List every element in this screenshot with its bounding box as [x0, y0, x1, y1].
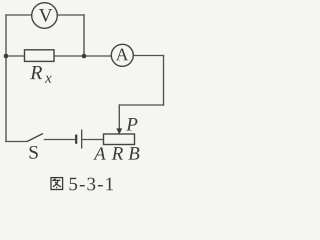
- wire bottom-left to switch pivot: [6, 141, 27, 143]
- label A (ammeter): [116, 49, 128, 61]
- battery positive plate (tall thin): [81, 130, 83, 149]
- slider arrow head: [116, 128, 122, 134]
- wire battery to rheostat: [83, 139, 104, 141]
- label x subscript of Rx: [45, 76, 52, 83]
- switch S blade: [27, 134, 43, 142]
- caption digit 1: [106, 178, 113, 191]
- rheostat R (box): [104, 134, 135, 145]
- label V (voltmeter): [39, 9, 53, 22]
- caption digit -: [98, 185, 103, 186]
- wire left node to resistor Rx: [6, 55, 25, 57]
- wire right vertical rail: [163, 56, 165, 106]
- battery negative plate (short thick): [75, 135, 77, 144]
- caption digit -: [80, 185, 85, 186]
- wire left vertical rail: [5, 15, 7, 142]
- resistor Rx (box): [25, 50, 55, 62]
- caption digit 5: [70, 178, 78, 191]
- wire switch to battery: [45, 139, 75, 141]
- ammeter A (circle): [111, 44, 133, 66]
- wire voltmeter to top-right corner: [57, 14, 84, 16]
- wire resistor Rx to ammeter: [54, 55, 111, 57]
- node junction dot (right): [82, 54, 87, 59]
- wire horizontal run to slider: [119, 104, 163, 106]
- terminal label A: [93, 147, 105, 159]
- terminal label B: [128, 147, 139, 159]
- wire slider drop: [118, 105, 120, 130]
- voltmeter V (circle): [32, 3, 58, 29]
- label P (slider): [126, 118, 137, 130]
- node junction dot (left): [4, 54, 9, 59]
- label R of Rx: [30, 66, 42, 79]
- wire top-left horizontal to voltmeter: [6, 14, 32, 16]
- wire ammeter to right rail: [133, 55, 163, 57]
- wire vertical from top wire down to node at resistor row: [83, 15, 85, 56]
- caption digit 3: [87, 178, 95, 191]
- rheostat label R: [112, 147, 123, 159]
- label S (switch): [30, 146, 38, 159]
- caption glyph tu (CJK): [51, 178, 63, 190]
